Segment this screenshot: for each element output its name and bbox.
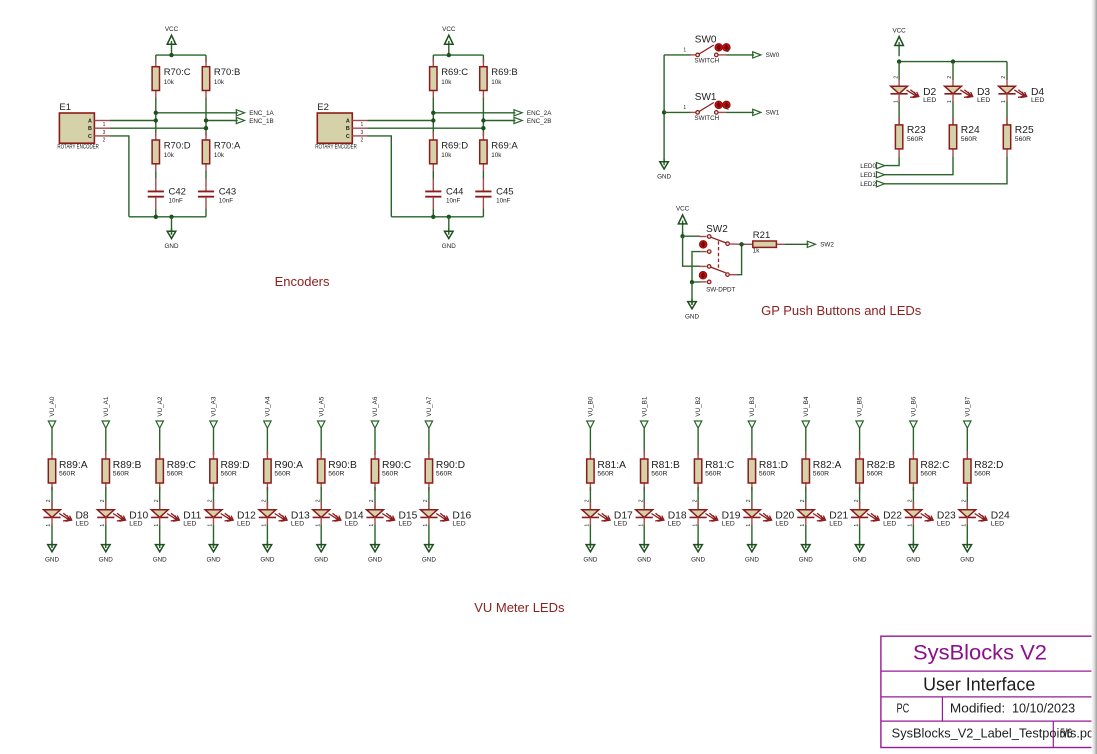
svg-text:VU_A1: VU_A1 bbox=[103, 396, 110, 416]
wire: R69:D to C44 bbox=[432, 171, 434, 179]
wire: R89:C to D11 bbox=[159, 487, 161, 510]
net flag LED0 bbox=[860, 163, 884, 170]
wire: VU_B0 to R81:A bbox=[589, 428, 591, 455]
svg-text:10k: 10k bbox=[214, 79, 225, 86]
junction ground rail gnd stem bbox=[169, 215, 173, 219]
svg-text:LED: LED bbox=[452, 521, 465, 528]
svg-text:E1: E1 bbox=[59, 102, 71, 113]
net label VU_B3 bbox=[748, 396, 756, 428]
wire: R69:C to R69:D column bbox=[432, 98, 434, 136]
LED D15 bbox=[366, 499, 417, 528]
svg-text:LED: LED bbox=[977, 97, 990, 104]
wire: VU_A2 to R89:C bbox=[159, 428, 161, 455]
svg-text:R90:C: R90:C bbox=[382, 460, 412, 471]
wire: throw 2 to ground bus bbox=[692, 252, 701, 283]
wire: C44 to ground rail bbox=[432, 209, 434, 217]
svg-text:GND: GND bbox=[260, 557, 274, 564]
wire: R89:D to D12 bbox=[213, 487, 215, 510]
svg-text:2: 2 bbox=[962, 499, 968, 502]
wire: node to ENC_2B flag bbox=[483, 120, 515, 122]
ground (D23) bbox=[906, 542, 920, 564]
capacitor C42 10nF bbox=[148, 179, 186, 210]
resistor R69:D 10k bbox=[430, 132, 469, 172]
svg-text:2: 2 bbox=[208, 499, 214, 502]
LED D16 bbox=[420, 499, 471, 528]
junction SW2 ground node bbox=[690, 280, 694, 284]
svg-text:ROTARY ENCODER: ROTARY ENCODER bbox=[315, 144, 357, 151]
svg-text:GND: GND bbox=[960, 557, 974, 564]
net flag ENC_2A bbox=[514, 110, 552, 117]
svg-text:R70:C: R70:C bbox=[164, 67, 191, 78]
resistor R82:D 560R bbox=[964, 451, 1004, 491]
wire: VU_B2 to R81:C bbox=[697, 428, 699, 455]
junction VCC rail encoder 1 bbox=[169, 53, 173, 57]
wire: R90:D to D16 bbox=[428, 487, 430, 510]
wire: VU_A6 to R90:C bbox=[374, 428, 376, 455]
svg-text:VU_B3: VU_B3 bbox=[749, 396, 756, 416]
svg-text:2: 2 bbox=[638, 499, 644, 502]
page edge shadow bbox=[1092, 0, 1097, 754]
svg-text:LED: LED bbox=[775, 521, 788, 528]
svg-text:GND: GND bbox=[368, 557, 382, 564]
wire: VU_B5 to R82:B bbox=[859, 428, 861, 455]
net label VU_A2 bbox=[156, 396, 164, 428]
wire: VU_A5 to R90:B bbox=[320, 428, 322, 455]
LED D11 bbox=[151, 499, 201, 528]
svg-text:C44: C44 bbox=[446, 186, 463, 197]
svg-text:GND: GND bbox=[906, 557, 920, 564]
wire: encoder pin B net bbox=[368, 127, 484, 129]
svg-text:R81:C: R81:C bbox=[705, 460, 735, 471]
wire: LED block VCC rail bbox=[899, 61, 1007, 63]
net label VU_A0 bbox=[48, 396, 56, 428]
wire: D11 to ground bbox=[159, 525, 161, 548]
svg-text:SW0: SW0 bbox=[695, 35, 717, 46]
svg-text:2: 2 bbox=[423, 499, 429, 502]
resistor R70:A 10k bbox=[202, 132, 241, 172]
svg-text:560R: 560R bbox=[382, 471, 398, 478]
svg-text:C: C bbox=[346, 134, 350, 140]
junction pin A node bbox=[154, 118, 158, 122]
svg-text:560R: 560R bbox=[274, 471, 290, 478]
svg-text:ENC_1A: ENC_1A bbox=[249, 110, 274, 117]
ground (D19) bbox=[691, 542, 705, 564]
junction pin B node bbox=[481, 126, 485, 130]
wire: rail to D2 bbox=[898, 62, 900, 80]
resistor R82:A 560R bbox=[802, 451, 841, 491]
wire: D8 to ground bbox=[51, 525, 53, 548]
resistor R23 560R bbox=[895, 117, 926, 157]
resistor R70:C 10k bbox=[152, 59, 191, 99]
svg-text:560R: 560R bbox=[328, 471, 344, 478]
wire: D13 to ground bbox=[266, 525, 268, 548]
svg-text:LED: LED bbox=[183, 521, 196, 528]
junction SW1 bus bbox=[662, 110, 666, 114]
svg-text:2: 2 bbox=[361, 138, 364, 144]
resistor R82:B 560R bbox=[856, 451, 895, 491]
svg-text:R89:C: R89:C bbox=[167, 460, 197, 471]
wire: VCC rail encoder 2 bbox=[433, 54, 483, 56]
wire: C42 to ground rail bbox=[155, 209, 157, 217]
wire: D14 to ground bbox=[320, 525, 322, 548]
svg-text:GND: GND bbox=[657, 174, 671, 181]
wire: throw 4 to ground bus bbox=[692, 281, 701, 283]
section title VU Meter LEDs bbox=[474, 600, 565, 615]
ground (D21) bbox=[799, 542, 813, 564]
rotary encoder E1 bbox=[57, 102, 109, 151]
svg-text:560R: 560R bbox=[974, 471, 990, 478]
LED D13 bbox=[259, 499, 310, 528]
power VCC (LED block) bbox=[892, 27, 906, 56]
net label VU_B4 bbox=[802, 396, 810, 428]
wire: encoder pin C to ground rail bbox=[368, 136, 392, 217]
svg-text:560R: 560R bbox=[813, 471, 829, 478]
svg-text:560R: 560R bbox=[759, 471, 775, 478]
svg-text:R81:D: R81:D bbox=[759, 460, 788, 471]
svg-text:560R: 560R bbox=[436, 471, 452, 478]
svg-text:C45: C45 bbox=[496, 186, 513, 197]
svg-text:SW0: SW0 bbox=[766, 52, 780, 59]
svg-text:2: 2 bbox=[893, 76, 899, 79]
wire: D21 to ground bbox=[805, 525, 807, 548]
resistor R69:C 10k bbox=[430, 59, 469, 99]
wire: rail to R70:B bbox=[205, 55, 207, 62]
svg-text:ENC_2A: ENC_2A bbox=[527, 110, 552, 117]
wire: D3 to R24 bbox=[952, 101, 954, 128]
svg-text:Encoders: Encoders bbox=[275, 274, 330, 289]
svg-text:SW1: SW1 bbox=[766, 110, 780, 117]
resistor R89:B 560R bbox=[102, 451, 141, 491]
LED D18 bbox=[636, 499, 687, 528]
wire: SW2 commons tied bbox=[737, 244, 742, 274]
LED D22 bbox=[851, 499, 902, 528]
svg-text:Modified:: Modified: bbox=[950, 700, 1005, 715]
svg-text:GND: GND bbox=[314, 557, 328, 564]
net flag ENC_1B bbox=[236, 117, 273, 124]
wire: R23 to LED0 flag bbox=[885, 157, 900, 166]
LED D20 bbox=[743, 499, 794, 528]
svg-text:2: 2 bbox=[727, 106, 730, 112]
svg-text:560R: 560R bbox=[920, 471, 936, 478]
wire: ground node down bbox=[691, 282, 693, 305]
power VCC (SW2) bbox=[676, 206, 690, 235]
wire: bus to SW1 bbox=[664, 111, 690, 113]
junction ground rail gnd stem bbox=[447, 215, 451, 219]
wire: VU_B1 to R81:B bbox=[643, 428, 645, 455]
svg-text:ROTARY ENCODER: ROTARY ENCODER bbox=[57, 144, 99, 151]
wire: node to ENC_2A flag bbox=[433, 112, 515, 114]
svg-text:R90:A: R90:A bbox=[274, 460, 303, 471]
ground (D12) bbox=[207, 542, 221, 564]
svg-text:LED: LED bbox=[399, 521, 412, 528]
svg-text:1: 1 bbox=[103, 122, 106, 128]
wire: SW0 to flag bbox=[727, 54, 755, 56]
svg-text:10k: 10k bbox=[491, 79, 502, 86]
junction ground rail left bbox=[431, 215, 435, 219]
wire: bus to SW0 bbox=[664, 54, 690, 56]
svg-text:SW2: SW2 bbox=[820, 242, 834, 249]
svg-text:GND: GND bbox=[422, 557, 436, 564]
svg-text:10nF: 10nF bbox=[169, 198, 184, 205]
wire: encoder pin C to ground rail bbox=[110, 136, 129, 217]
net label VU_A1 bbox=[102, 396, 110, 428]
svg-text:10k: 10k bbox=[214, 152, 225, 159]
net label VU_A6 bbox=[371, 396, 379, 428]
svg-text:GP Push Buttons and LEDs: GP Push Buttons and LEDs bbox=[761, 303, 922, 318]
svg-text:560R: 560R bbox=[113, 471, 129, 478]
resistor R24 560R bbox=[949, 117, 980, 157]
wire: R24 to LED1 flag bbox=[885, 157, 953, 175]
net label VU_A3 bbox=[210, 396, 218, 428]
wire: rail to R69:B bbox=[482, 55, 484, 62]
switch SW1 bbox=[683, 92, 730, 122]
resistor R89:D 560R bbox=[210, 451, 250, 491]
LED D21 bbox=[797, 499, 848, 528]
svg-text:VCC: VCC bbox=[892, 27, 906, 34]
svg-text:2: 2 bbox=[1001, 76, 1007, 79]
net flag LED1 bbox=[860, 172, 884, 179]
svg-text:VCC: VCC bbox=[165, 26, 179, 33]
svg-text:R82:B: R82:B bbox=[867, 460, 896, 471]
wire: rail to D4 bbox=[1006, 62, 1008, 80]
svg-text:E2: E2 bbox=[317, 102, 329, 113]
resistor R81:A 560R bbox=[587, 451, 626, 491]
svg-text:VU_B1: VU_B1 bbox=[641, 396, 648, 416]
junction SW2 common node bbox=[739, 242, 743, 246]
svg-text:10k: 10k bbox=[164, 152, 175, 159]
svg-text:SW2: SW2 bbox=[706, 224, 728, 235]
svg-text:2: 2 bbox=[369, 499, 375, 502]
resistor R69:A 10k bbox=[480, 132, 519, 172]
svg-text:VU_B4: VU_B4 bbox=[803, 396, 810, 416]
LED D19 bbox=[690, 499, 741, 528]
svg-text:1: 1 bbox=[908, 524, 914, 527]
svg-text:2: 2 bbox=[746, 499, 752, 502]
power VCC (encoder 1) bbox=[165, 26, 179, 55]
svg-text:GND: GND bbox=[442, 243, 456, 250]
wire: D12 to ground bbox=[213, 525, 215, 548]
LED D2 bbox=[891, 76, 937, 105]
svg-text:R82:A: R82:A bbox=[813, 460, 842, 471]
resistor R81:D 560R bbox=[748, 451, 788, 491]
wire: node to ENC_1A flag bbox=[156, 112, 238, 114]
svg-text:2: 2 bbox=[100, 499, 106, 502]
svg-text:1: 1 bbox=[361, 122, 364, 128]
svg-text:R69:A: R69:A bbox=[491, 141, 518, 152]
ground (SW2) bbox=[685, 299, 699, 321]
svg-text:R23: R23 bbox=[907, 125, 926, 136]
svg-text:VU_A7: VU_A7 bbox=[426, 396, 433, 416]
net label VU_B7 bbox=[964, 396, 972, 428]
svg-text:560R: 560R bbox=[221, 471, 237, 478]
wire: VCC node to throw 3 bbox=[683, 236, 700, 266]
switch SW2 (SW-DPDT) bbox=[699, 224, 742, 293]
svg-text:GND: GND bbox=[153, 557, 167, 564]
capacitor C43 10nF bbox=[198, 179, 236, 210]
svg-text:10nF: 10nF bbox=[219, 198, 234, 205]
svg-text:SWITCH: SWITCH bbox=[694, 115, 719, 122]
wire: C43 to ground rail bbox=[205, 209, 207, 217]
svg-text:R82:D: R82:D bbox=[974, 460, 1003, 471]
junction pin A node bbox=[431, 118, 435, 122]
svg-text:R90:D: R90:D bbox=[436, 460, 465, 471]
svg-text:R21: R21 bbox=[753, 230, 770, 241]
title: author PC bbox=[897, 700, 910, 715]
svg-text:R70:D: R70:D bbox=[164, 141, 191, 152]
svg-text:VU_A0: VU_A0 bbox=[49, 396, 56, 416]
svg-text:LED: LED bbox=[76, 521, 89, 528]
net label VU_A5 bbox=[318, 396, 326, 428]
net flag ENC_1A bbox=[236, 110, 274, 117]
wire: D24 to ground bbox=[966, 525, 968, 548]
wire: R90:C to D15 bbox=[374, 487, 376, 510]
svg-text:R89:D: R89:D bbox=[221, 460, 250, 471]
svg-text:B: B bbox=[346, 126, 350, 132]
section title GP Push Buttons and LEDs bbox=[761, 303, 922, 318]
svg-text:R69:C: R69:C bbox=[441, 67, 468, 78]
junction ENC_1B node bbox=[204, 118, 208, 122]
svg-text:10/10/2023: 10/10/2023 bbox=[1012, 700, 1075, 715]
svg-text:ENC_2B: ENC_2B bbox=[527, 118, 552, 125]
title: Modified date bbox=[950, 700, 1075, 715]
wire: D19 to ground bbox=[697, 525, 699, 548]
resistor R90:D 560R bbox=[425, 451, 465, 491]
wire: C45 to ground rail bbox=[482, 209, 484, 217]
junction ENC_2B node bbox=[481, 118, 485, 122]
svg-text:2: 2 bbox=[727, 48, 730, 54]
junction ground rail left bbox=[154, 215, 158, 219]
junction VCC rail encoder 2 bbox=[447, 53, 451, 57]
svg-text:GND: GND bbox=[583, 557, 597, 564]
svg-text:R89:B: R89:B bbox=[113, 460, 142, 471]
resistor R81:C 560R bbox=[694, 451, 734, 491]
svg-text:560R: 560R bbox=[961, 136, 977, 143]
svg-text:C43: C43 bbox=[219, 186, 236, 197]
wire: R90:A to D13 bbox=[266, 487, 268, 510]
wire: R89:A to D8 bbox=[51, 487, 53, 510]
wire: R69:A to C45 bbox=[482, 171, 484, 179]
svg-text:2: 2 bbox=[585, 499, 591, 502]
svg-text:VU_A6: VU_A6 bbox=[372, 396, 379, 416]
net label VU_B1 bbox=[641, 396, 649, 428]
svg-text:PC: PC bbox=[897, 700, 910, 715]
LED D17 bbox=[582, 499, 633, 528]
svg-text:LED: LED bbox=[937, 521, 950, 528]
svg-text:2: 2 bbox=[854, 499, 860, 502]
ground (D20) bbox=[745, 542, 759, 564]
ground (D16) bbox=[422, 542, 436, 564]
svg-text:GND: GND bbox=[691, 557, 705, 564]
svg-text:560R: 560R bbox=[59, 471, 75, 478]
net flag LED2 bbox=[860, 181, 884, 188]
LED D14 bbox=[313, 499, 364, 528]
svg-text:VU_B5: VU_B5 bbox=[857, 396, 864, 416]
svg-text:2: 2 bbox=[315, 499, 321, 502]
svg-text:SW1: SW1 bbox=[695, 92, 717, 103]
resistor R89:C 560R bbox=[156, 451, 196, 491]
svg-text:2: 2 bbox=[947, 76, 953, 79]
svg-text:LED: LED bbox=[129, 521, 142, 528]
resistor R90:C 560R bbox=[371, 451, 411, 491]
wire: rail to R69:C bbox=[432, 55, 434, 62]
wire: D2 to R23 bbox=[898, 101, 900, 128]
ground (encoder 2) bbox=[442, 217, 456, 250]
svg-text:LED: LED bbox=[1031, 97, 1044, 104]
svg-text:1: 1 bbox=[100, 524, 106, 527]
wire: VU_A3 to R89:D bbox=[213, 428, 215, 455]
svg-text:User Interface: User Interface bbox=[923, 674, 1035, 694]
LED D10 bbox=[97, 499, 148, 528]
svg-text:2: 2 bbox=[103, 138, 106, 144]
wire: D18 to ground bbox=[643, 525, 645, 548]
svg-text:LED: LED bbox=[668, 521, 681, 528]
svg-text:R70:B: R70:B bbox=[214, 67, 240, 78]
resistor R25 560R bbox=[1003, 117, 1034, 157]
svg-text:GND: GND bbox=[745, 557, 759, 564]
svg-text:10k: 10k bbox=[164, 79, 175, 86]
title: file name bbox=[892, 727, 1097, 741]
LED D3 bbox=[944, 76, 990, 105]
svg-text:560R: 560R bbox=[705, 471, 721, 478]
svg-text:2: 2 bbox=[262, 499, 268, 502]
junction VCC rail D2 bbox=[897, 59, 901, 63]
svg-text:R82:C: R82:C bbox=[920, 460, 950, 471]
resistor R90:A 560R bbox=[264, 451, 303, 491]
svg-text:LED: LED bbox=[614, 521, 627, 528]
resistor R70:B 10k bbox=[202, 59, 240, 99]
svg-text:LED: LED bbox=[237, 521, 250, 528]
svg-text:SWITCH: SWITCH bbox=[694, 57, 719, 64]
svg-text:10k: 10k bbox=[441, 79, 452, 86]
net label VU_B0 bbox=[587, 396, 595, 428]
section title Encoders bbox=[275, 274, 330, 289]
ground (D13) bbox=[260, 542, 274, 564]
wire: R81:D to D20 bbox=[751, 487, 753, 510]
wire: R21 to SW2 flag bbox=[784, 243, 808, 245]
wire: R70:D to C42 bbox=[155, 171, 157, 179]
svg-text:VCC: VCC bbox=[442, 26, 456, 33]
wire: R70:C to R70:D column bbox=[155, 98, 157, 136]
svg-text:560R: 560R bbox=[867, 471, 883, 478]
LED D24 bbox=[959, 499, 1010, 528]
svg-text:LED: LED bbox=[991, 521, 1004, 528]
svg-text:R81:A: R81:A bbox=[597, 460, 626, 471]
wire: VCC node to throw 1 bbox=[683, 235, 700, 237]
wire: VU_A1 to R89:B bbox=[105, 428, 107, 455]
wire: R82:C to D23 bbox=[912, 487, 914, 510]
net flag SW1 bbox=[753, 109, 780, 116]
svg-text:B: B bbox=[88, 126, 92, 132]
svg-text:LED: LED bbox=[291, 521, 304, 528]
svg-text:LED: LED bbox=[923, 97, 936, 104]
capacitor C45 10nF bbox=[475, 179, 513, 210]
net flag SW2 bbox=[807, 241, 834, 248]
svg-text:VU_A5: VU_A5 bbox=[318, 396, 325, 416]
ground (encoder 1) bbox=[165, 217, 179, 250]
resistor R90:B 560R bbox=[318, 451, 357, 491]
svg-text:LED: LED bbox=[345, 521, 358, 528]
wire: R81:B to D18 bbox=[643, 487, 645, 510]
wire: ground rail encoder 2 bbox=[391, 216, 483, 218]
svg-text:GND: GND bbox=[637, 557, 651, 564]
svg-text:VU Meter LEDs: VU Meter LEDs bbox=[474, 600, 565, 615]
svg-text:LED1: LED1 bbox=[860, 172, 876, 179]
svg-text:1: 1 bbox=[683, 47, 686, 53]
net label VU_B2 bbox=[694, 396, 702, 428]
svg-text:5/6: 5/6 bbox=[1060, 725, 1072, 740]
svg-text:LED: LED bbox=[829, 521, 842, 528]
wire: R90:B to D14 bbox=[320, 487, 322, 510]
